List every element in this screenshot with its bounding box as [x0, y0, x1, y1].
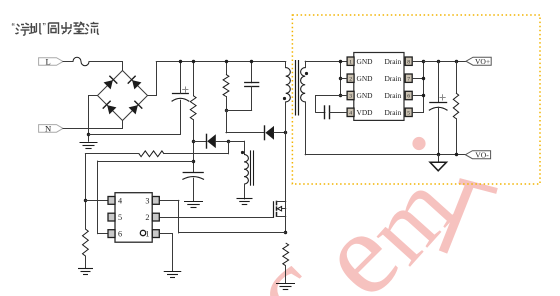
svg-text:Drain: Drain: [384, 108, 401, 117]
svg-text:GND: GND: [357, 91, 374, 100]
svg-text:Drain: Drain: [384, 74, 401, 83]
svg-text:”: ”: [43, 22, 46, 33]
svg-text:3: 3: [145, 197, 149, 206]
svg-text:6: 6: [118, 230, 122, 239]
svg-text:4: 4: [349, 110, 352, 116]
svg-text:3: 3: [349, 94, 352, 100]
svg-text:1: 1: [349, 59, 352, 65]
svg-text:6: 6: [407, 94, 410, 100]
svg-text:“: “: [12, 22, 15, 33]
svg-text:2: 2: [349, 76, 352, 82]
svg-text:GND: GND: [357, 74, 374, 83]
svg-text:8: 8: [407, 59, 410, 65]
svg-text:VO-: VO-: [475, 150, 489, 159]
svg-text:N: N: [45, 123, 52, 133]
svg-text:4: 4: [118, 197, 122, 206]
svg-text:Drain: Drain: [384, 91, 401, 100]
svg-text:5: 5: [407, 110, 410, 116]
svg-text:5: 5: [118, 213, 122, 222]
svg-text:VDD: VDD: [357, 108, 374, 117]
svg-text:Drain: Drain: [384, 57, 401, 66]
svg-text:GND: GND: [357, 57, 374, 66]
svg-text:7: 7: [407, 76, 410, 82]
svg-text:2: 2: [145, 213, 149, 222]
svg-text:L: L: [45, 56, 50, 66]
svg-text:VO+: VO+: [475, 57, 490, 66]
